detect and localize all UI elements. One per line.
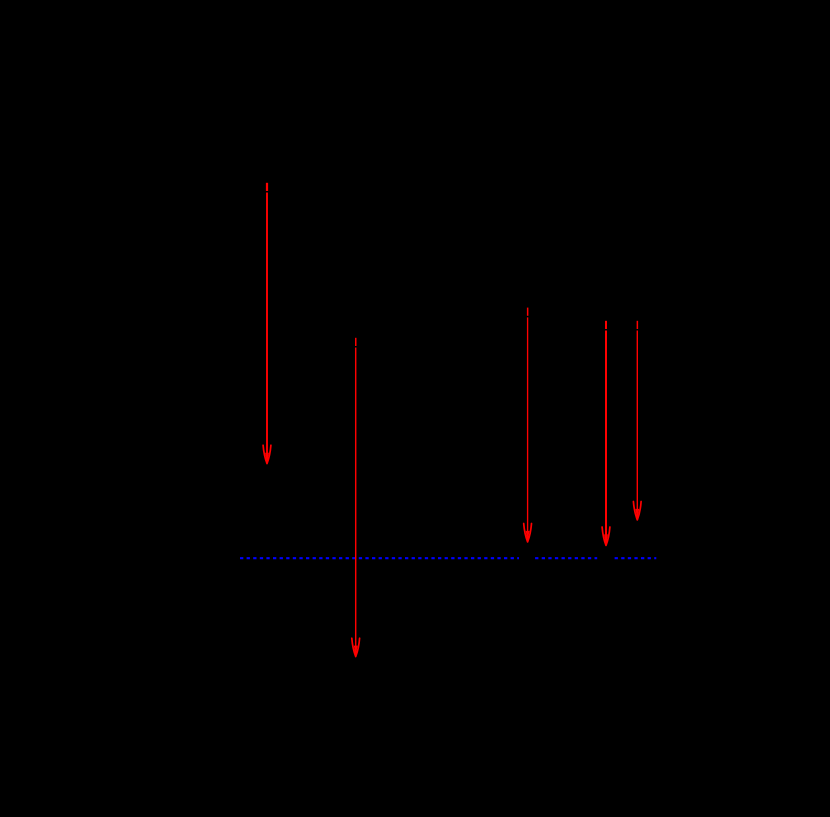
red arrow 4 shaft xyxy=(605,331,607,544)
red line tick 5 xyxy=(637,321,639,329)
red arrow 4 head xyxy=(602,527,610,545)
red arrow 1 head xyxy=(263,445,271,464)
red line tick 2 xyxy=(355,338,357,346)
red line tick 4 xyxy=(605,321,607,329)
blue dashed level segment A xyxy=(240,557,519,559)
red arrow 2 head xyxy=(352,638,360,656)
red arrow 5 head xyxy=(633,502,641,520)
red arrow 2 shaft xyxy=(355,348,357,655)
red arrow 3 head xyxy=(524,524,532,542)
red arrow 1 shaft xyxy=(266,193,268,462)
blue dashed level segment B xyxy=(535,557,597,559)
blue dashed level segment C xyxy=(615,557,657,559)
red arrow 5 shaft xyxy=(636,331,638,518)
red line tick 3 xyxy=(527,308,529,316)
red line tick 1 xyxy=(266,183,268,191)
red arrow 3 shaft xyxy=(527,317,529,539)
